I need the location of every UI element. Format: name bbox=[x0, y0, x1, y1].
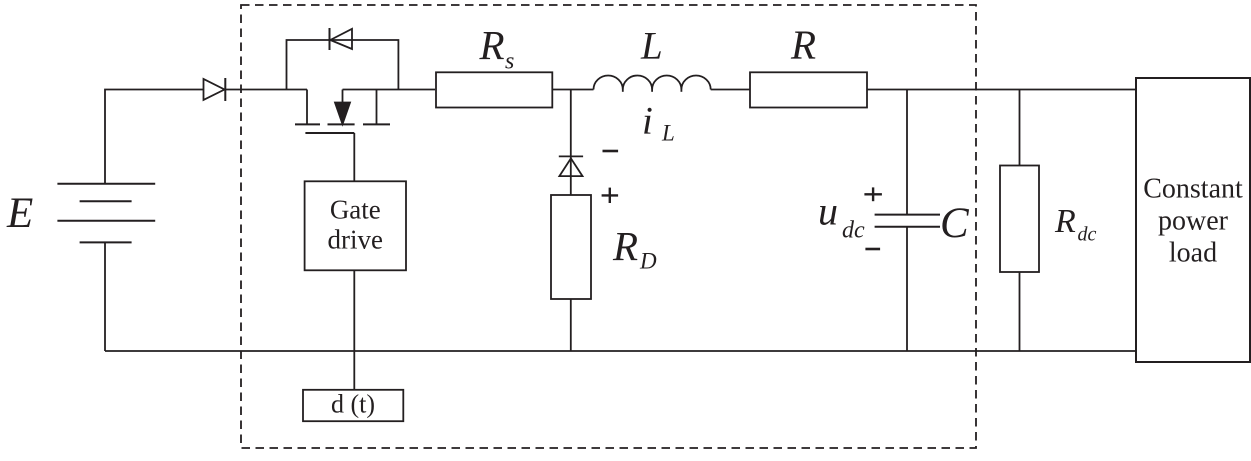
label plus of D3 bbox=[602, 188, 619, 203]
svg-text:R: R bbox=[612, 223, 638, 269]
label udc bbox=[818, 188, 865, 243]
svg-text:dc: dc bbox=[1078, 224, 1097, 246]
svg-text:R: R bbox=[790, 22, 816, 68]
MOSFET Q1 bbox=[295, 90, 390, 134]
capacitor C bbox=[875, 215, 940, 227]
svg-text:D: D bbox=[639, 249, 657, 274]
svg-text:Constant: Constant bbox=[1143, 174, 1243, 205]
battery E bbox=[57, 184, 155, 243]
wire gate drive to d(t) box bbox=[353, 270, 355, 390]
svg-text:C: C bbox=[940, 200, 970, 247]
capacitor branch top wire bbox=[906, 90, 908, 215]
node vertical wire to diode D3 and RD bbox=[570, 90, 572, 196]
label minus of udc bbox=[865, 248, 880, 251]
svg-text:dc: dc bbox=[842, 218, 865, 244]
label iL bbox=[642, 99, 675, 145]
wire L to R bbox=[711, 89, 750, 91]
wire R to load box bbox=[867, 89, 1136, 91]
svg-text:R: R bbox=[479, 22, 505, 68]
wire MOSFET drain to Rs bbox=[343, 89, 436, 91]
wire battery top to diode D1 bbox=[105, 90, 204, 184]
constant power load box bbox=[1136, 78, 1250, 362]
inductor L bbox=[594, 76, 711, 92]
svg-text:R: R bbox=[1054, 203, 1076, 240]
svg-text:u: u bbox=[818, 188, 838, 233]
label minus of D3 bbox=[603, 150, 619, 153]
label RD bbox=[612, 223, 657, 274]
diode D3 bbox=[559, 156, 583, 176]
freewheel diode D2 bbox=[330, 28, 353, 50]
wire RD to bottom rail bbox=[570, 299, 572, 351]
gate wire to Gate drive box bbox=[353, 133, 355, 181]
anti-parallel diode loop wire bbox=[287, 40, 399, 90]
Rdc branch top wire bbox=[1019, 90, 1021, 166]
capacitor branch bottom wire bbox=[906, 227, 908, 351]
label gate drive bbox=[328, 194, 383, 254]
resistor RD bbox=[551, 195, 591, 299]
bottom rail wire bbox=[105, 350, 1136, 352]
svg-text:Gate: Gate bbox=[330, 194, 381, 224]
svg-text:load: load bbox=[1169, 238, 1217, 269]
Rdc branch bottom wire bbox=[1019, 272, 1021, 351]
battery bottom wire to rail bbox=[104, 242, 106, 351]
label plus of udc bbox=[864, 187, 882, 201]
gate drive box bbox=[305, 181, 406, 270]
svg-text:power: power bbox=[1158, 206, 1229, 237]
diode D1 bbox=[204, 78, 226, 101]
label Rs bbox=[479, 22, 515, 75]
svg-text:s: s bbox=[505, 49, 514, 75]
wire Rs to inductor L bbox=[553, 89, 594, 91]
svg-text:L: L bbox=[640, 25, 663, 68]
svg-text:i: i bbox=[642, 99, 653, 142]
svg-text:drive: drive bbox=[328, 224, 383, 254]
wire D1 to MOSFET source bbox=[225, 89, 307, 91]
dashed converter box bbox=[241, 5, 976, 448]
svg-text:d (t): d (t) bbox=[331, 390, 375, 419]
label Rdc bbox=[1054, 203, 1097, 246]
resistor Rdc bbox=[1000, 166, 1039, 273]
resistor Rs bbox=[436, 72, 552, 107]
resistor R bbox=[750, 72, 867, 107]
label constant power load bbox=[1143, 174, 1243, 269]
svg-text:E: E bbox=[6, 190, 33, 237]
d(t) box bbox=[303, 390, 403, 421]
svg-text:L: L bbox=[661, 121, 675, 146]
